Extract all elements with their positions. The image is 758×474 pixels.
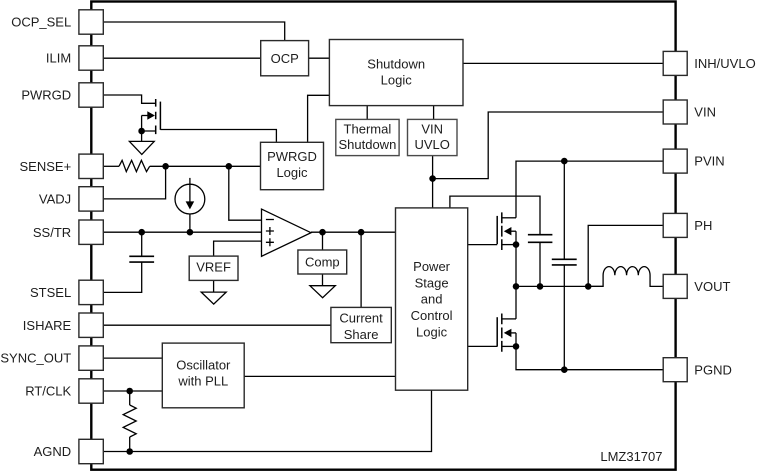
pin RT/CLK [79,379,103,403]
node inverting input branch [226,163,233,170]
wire Power Stage to Q3 gate [468,345,498,347]
wire capacitor C2 to switch node rail [539,243,541,287]
wire Comp to ground [322,274,324,286]
inductor L1 to VOUT [588,267,663,287]
svg-text:VIN: VIN [421,122,443,137]
wire output node to Comp [322,232,324,250]
svg-text:SENSE+: SENSE+ [20,159,72,174]
node SS/TR capacitor junction [138,229,145,236]
node switch rail left [513,283,520,290]
svg-text:Comp: Comp [305,255,340,270]
wire SS/TR node to capacitor C1 [141,232,143,256]
node switch rail PH [585,283,592,290]
svg-text:Logic: Logic [381,73,413,88]
svg-text:UVLO: UVLO [414,137,449,152]
pin SENSE+ [79,154,103,178]
wire Shutdown Logic to VIN UVLO [433,106,435,120]
wire VREF to ground [213,280,215,292]
node Q2 source [513,241,520,248]
svg-text:VIN: VIN [694,105,716,120]
node current source junction [187,229,194,236]
wire Oscillator to Power Stage [244,375,395,377]
svg-text:Oscillator: Oscillator [176,358,231,373]
resistor R1 at SENSE+ [119,160,150,171]
wire op-amp output to Power Stage [311,231,396,233]
ground below Q1 [129,141,154,154]
svg-text:VOUT: VOUT [694,279,730,294]
wire PVIN node to capacitor C3 [563,161,565,259]
wire PWRGD pin to Q1 drain [103,95,155,103]
block OCP [261,41,309,76]
svg-text:Thermal: Thermal [344,122,392,137]
wire Power Stage to Q2 gate [468,244,498,246]
transistor Q1 PWRGD open drain [142,99,161,141]
wire VIN UVLO to node A [432,156,434,179]
block PWRGD Logic [261,142,324,189]
svg-text:PWRGD: PWRGD [267,149,317,164]
svg-text:Stage: Stage [415,275,449,290]
resistor R2 at RT/CLK [123,405,136,437]
node RT/CLK resistor top [126,388,133,395]
wire AGND pin to Power Stage bottom [103,390,431,451]
block Current Share [331,307,391,342]
wire OCP to Shutdown Logic [309,57,330,59]
wire switch node rail [516,285,603,287]
svg-text:LMZ31707: LMZ31707 [600,449,662,464]
ground below Comp [310,286,335,298]
wire ISHARE pin to Current Share [103,324,331,326]
svg-text:Power: Power [413,259,451,274]
svg-text:PWRGD: PWRGD [21,88,71,103]
node A VIN UVLO junction [429,175,436,182]
pin VIN [663,100,687,124]
wire OCP_SEL to OCP box [103,22,284,41]
block VREF [189,256,238,280]
svg-text:Control: Control [411,308,453,323]
svg-text:AGND: AGND [34,444,72,459]
ground below VREF [201,292,226,304]
pin OCP_SEL [79,10,103,34]
pin AGND [79,439,103,463]
pin SS/TR [79,220,103,244]
svg-text:Shutdown: Shutdown [367,56,425,71]
wire Power Stage boot to capacitor C2 [450,196,540,234]
wire SENSE+ pin to resistor R1 [103,165,119,167]
svg-text:VREF: VREF [196,260,231,275]
wire capacitor C3 to PGND line [563,266,565,370]
pin PH [663,213,687,237]
svg-text:OCP_SEL: OCP_SEL [11,15,71,30]
wire SENSE+ node to op-amp inverting input [229,166,262,220]
wire PWRGD Logic to Shutdown Logic [308,95,330,142]
node switch rail boot cap [537,283,544,290]
wire capacitor C1 to STSEL pin [103,263,141,293]
pin STSEL [79,280,103,304]
capacitor C1 at SS/TR [129,256,154,262]
node SENSE+ resistor junction [162,163,169,170]
wire output node to Current Share [360,232,362,307]
block Power Stage and Control Logic [396,208,468,390]
transistor Q3 low-side power FET [497,314,516,352]
capacitor C3 input bypass [552,259,577,265]
svg-text:ILIM: ILIM [46,51,71,66]
pin SYNC_OUT [79,346,103,370]
svg-text:STSEL: STSEL [30,285,71,300]
svg-text:OCP: OCP [271,51,299,66]
wire Q2 source to switch node rail [515,245,517,287]
node PGND capacitor junction [561,366,568,373]
pin PWRGD [79,83,103,107]
wire switch node rail to Q3 drain [515,286,517,319]
svg-text:Logic: Logic [276,165,308,180]
svg-text:RT/CLK: RT/CLK [25,384,71,399]
wire ILIM to OCP box [103,57,260,59]
block Comp [298,250,347,274]
svg-text:VADJ: VADJ [39,192,71,207]
pin VADJ [79,187,103,211]
block Thermal Shutdown [336,119,399,155]
wire VREF to op-amp second plus input [214,241,262,256]
svg-text:ISHARE: ISHARE [23,318,72,333]
op-amp U1 error amplifier [262,209,312,256]
wire RT/CLK pin to Oscillator [103,390,162,392]
svg-text:PH: PH [694,218,712,233]
node PVIN capacitor junction [561,158,568,165]
node Q1 source [138,128,145,135]
svg-text:INH/UVLO: INH/UVLO [694,56,755,71]
block Oscillator with PLL [162,343,244,408]
wire SS/TR pin to op-amp plus input [103,231,261,233]
wire Shutdown Logic to INH/UVLO [463,62,663,64]
node Current Share junction [358,229,365,236]
wire resistor R2 to AGND line [129,437,131,452]
wire switch node to PH pin [588,225,663,286]
capacitor C2 bootstrap [528,235,553,243]
wire Q3 source to PGND pin [516,346,663,369]
svg-text:with PLL: with PLL [177,374,228,389]
wire PVIN pin to Q2 drain [516,161,663,218]
block VIN UVLO [408,119,458,155]
svg-text:Current: Current [339,311,383,326]
outer border frame of LMZ31707 module [91,2,675,470]
transistor Q2 high-side power FET [497,212,516,250]
wire Shutdown Logic to Thermal Shutdown [366,106,368,120]
wire Q1 gate to PWRGD Logic [160,130,276,143]
node Q3 source [513,343,520,350]
pin ISHARE [79,313,103,337]
wire node A to VIN pin [433,112,664,179]
svg-text:SS/TR: SS/TR [33,225,71,240]
svg-text:and: and [421,292,443,307]
wire node A to Power Stage top [432,179,434,208]
svg-text:Share: Share [344,327,379,342]
pin PGND [663,358,687,382]
wire VADJ pin to SENSE+ node [103,166,165,199]
node RT/CLK resistor bottom [126,448,133,455]
block Shutdown Logic [329,40,463,106]
current source I1 [175,178,205,232]
node Comp junction [319,229,326,236]
svg-text:Shutdown: Shutdown [338,137,396,152]
svg-text:Logic: Logic [416,324,448,339]
pin PVIN [663,149,687,173]
wire R1 to PWRGD Logic [150,165,261,167]
svg-text:PVIN: PVIN [694,154,724,169]
wire SYNC_OUT pin to Oscillator [103,357,162,359]
pin VOUT [663,274,687,298]
wire RT/CLK node to resistor R2 [129,391,131,405]
svg-text:SYNC_OUT: SYNC_OUT [0,351,71,366]
svg-text:PGND: PGND [694,362,732,377]
pin INH/UVLO [663,51,687,75]
pin ILIM [79,46,103,70]
